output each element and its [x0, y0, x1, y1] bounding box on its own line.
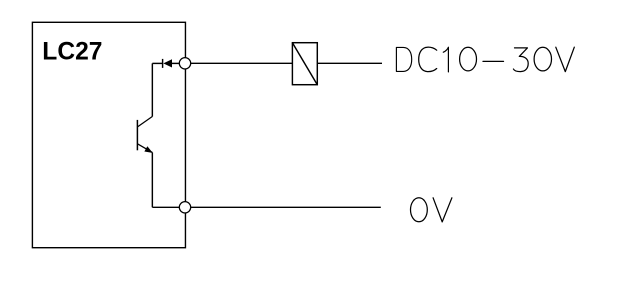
node terminal 0V (bottom circle)	[179, 202, 190, 213]
fuse F1 body	[292, 43, 317, 85]
transistor Q1 emitter lead	[138, 144, 153, 153]
wire from collector corner to diode bar	[152, 62, 162, 64]
svg-text:LC27: LC27	[42, 38, 102, 65]
transistor Q1 base bar	[136, 120, 138, 150]
wire collector vertical from top node to transistor	[151, 63, 153, 116]
transistor Q1 collector lead	[138, 117, 153, 127]
diode D1 arrow (points left)	[164, 60, 171, 67]
IC box LC27 outline	[32, 22, 185, 247]
transistor Q1 emitter arrowhead	[145, 147, 152, 152]
label DC10-30V (stroke glyphs)	[396, 47, 574, 72]
label LC27	[42, 38, 102, 65]
wire from diode to top node	[172, 62, 180, 64]
diode D1 cathode bar	[162, 59, 164, 68]
wire bottom node to 0V	[191, 206, 381, 208]
label 0V (stroke glyphs)	[411, 198, 452, 222]
wire fuse to DC10-30V	[317, 62, 382, 64]
node terminal + (top circle)	[179, 58, 190, 69]
wire top node to fuse	[191, 62, 293, 64]
wire emitter horizontal to bottom node	[152, 206, 180, 208]
wire emitter vertical to bottom node	[151, 152, 153, 207]
